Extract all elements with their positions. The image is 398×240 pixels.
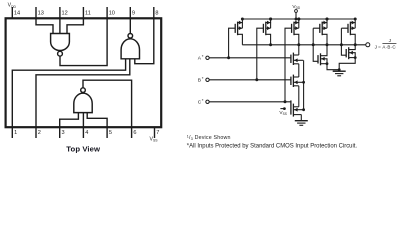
transistor Q3 (PMOS, gate C) [292,18,301,45]
junction dot Q10 bulk on rail [302,81,305,84]
node VDD bus [242,18,354,20]
input wire B [209,79,291,81]
NAND gate U2 output bubble [81,88,86,93]
pin 8 stub (top) [153,7,155,18]
svg-text:*: * [202,76,204,81]
pin 5 stub (bottom) [106,127,108,138]
pin 6 stub (bottom) [131,127,133,138]
pin 1 stub (bottom) [11,127,13,138]
pin 2 stub (bottom) [35,127,37,138]
wire Q9 drain to output bus [298,45,300,55]
junction dot Q3/Q6 drain on bus [297,43,300,46]
ground symbol (VSS) below Q11 [295,121,308,126]
svg-text:11: 11 [85,11,91,17]
output terminal J [366,43,370,47]
input wire A [209,57,291,59]
junction dot Q4/Q7 drain on bus [326,43,329,46]
wire pin13 to U3 input A [36,18,53,33]
junction dot inverter1 gate riser on bus [312,43,315,46]
svg-text:1: 1 [14,130,17,136]
svg-text:7: 7 [156,130,159,136]
VDD feed wire [295,12,297,19]
wire pin1 to U1 input A [12,59,125,127]
junction dot inverter2 gate riser on bus [340,43,343,46]
pin 14 stub (top) [11,7,13,18]
junction dot on input A [227,56,230,59]
svg-text:4: 4 [85,130,88,136]
wire pin4 to U2 input B [82,113,84,128]
NAND gate U3 output bubble [58,51,63,56]
IC package body (DIP-14 outline) [6,18,162,127]
ground symbol (VSS) at inverter output stage [333,71,346,76]
junction dot Q2 source on VDD bus [269,18,272,21]
wire Q8 source to ground node [339,58,355,70]
transistor Q11 (NMOS, gate C, series chain bottom) [291,100,304,116]
svg-text:12: 12 [62,11,68,17]
transistor Q1 (PMOS, gate A) [235,18,244,45]
junction dot Q5/Q8 drain on bus [354,43,357,46]
wire pin12 to U3 input B [59,18,61,33]
junction dot Q3 source on VDD bus [297,18,300,21]
junction dot VSS stub [283,107,286,110]
pin 4 stub (bottom) [82,127,84,138]
wire pin11 to U3 input C [67,18,83,33]
wire Q7 source to ground node [327,64,339,70]
svg-text:VDD: VDD [292,4,301,10]
transistor Q9 (NMOS, gate A, series chain) [291,53,303,65]
junction dot ground node [338,68,341,71]
svg-text:1/3 Device Shown: 1/3 Device Shown [187,135,231,141]
svg-text:5: 5 [109,130,112,136]
svg-text:*: * [202,98,204,103]
junction dot Q4 source on VDD bus [326,18,329,21]
svg-text:3: 3 [62,130,65,136]
node output bus (NAND/J line) [242,44,365,46]
wire U1 output bubble to pin9 [129,18,131,33]
gate riser A to Q1 [229,28,236,58]
NAND gate U2 body (inputs 3,4,5) [74,93,92,112]
transistor Q7 (NMOS, inverter 1) [318,45,328,66]
input terminal A [206,56,209,59]
wire U3 output to pin10 [60,18,107,65]
svg-text:9: 9 [132,11,135,17]
svg-text:B: B [198,78,201,84]
wire Q11 source to ground [300,115,302,121]
gate riser inverter 1 (Q4/Q7) [313,28,320,61]
wire Q9 source to Q10 drain [298,64,300,77]
junction dot on input B [255,78,258,81]
transistor Q8 (NMOS, inverter 2) [346,45,356,59]
junction dot VDD entry [295,18,298,21]
svg-text:VSS: VSS [279,110,286,116]
svg-text:J =: J = [375,44,382,49]
NAND gate U1 output bubble [128,34,133,39]
svg-text:6: 6 [133,130,136,136]
wire pin2 to U1 input B [36,59,130,127]
junction dot Q2 drain on bus [269,43,272,46]
pin 10 stub (top) [106,7,108,18]
pin 13 stub (top) [35,7,37,18]
svg-text:13: 13 [38,11,44,17]
transistor Q5 (PMOS, inverter 2) [348,18,357,45]
pin 3 stub (bottom) [59,127,61,138]
svg-text:*All Inputs Protected by Stand: *All Inputs Protected by Standard CMOS I… [187,144,358,150]
junction dot on input C [284,100,287,103]
NMOS bulk rail [303,60,305,109]
junction dot Q11 bulk on rail [302,108,305,111]
svg-text:8: 8 [155,11,158,17]
input terminal B [206,78,209,81]
pin 9 stub (top) [129,7,131,18]
svg-text:10: 10 [109,11,115,17]
pin 11 stub (top) [82,7,84,18]
svg-text:14: 14 [14,11,20,17]
svg-text:Top View: Top View [66,145,100,154]
NAND gate U3 body (inputs 13,12,11) [51,34,70,51]
input wire C [209,101,291,103]
transistor Q4 (PMOS, inverter 1) [320,18,329,45]
gate riser C to Q3 [285,28,292,102]
svg-text:VDD: VDD [8,3,17,9]
wire pin5 to U2 input C [87,113,107,128]
svg-text:A·B·C: A·B·C [382,44,396,49]
transistor Q2 (PMOS, gate B) [263,18,272,45]
svg-text:*: * [202,54,204,59]
wire pin8 to U1 input C [135,18,154,63]
wire pin3 to U2 input A [60,113,79,128]
pin 7 stub (bottom) [154,127,156,138]
VDD terminal [295,10,298,13]
wire U2 output to pin6 [83,80,132,127]
NAND gate U1 body (inputs 1,2,8) [121,39,139,59]
input terminal C [206,100,209,103]
pin 12 stub (top) [59,7,61,18]
wire Q10 source to Q11 drain [298,86,300,107]
svg-text:2: 2 [38,130,41,136]
VSS stub wire [280,108,284,110]
gate riser inverter 2 (Q5/Q8) [341,28,348,55]
transistor Q10 (NMOS, gate B, series chain) [291,75,303,87]
gate riser B to Q2 [257,28,264,80]
